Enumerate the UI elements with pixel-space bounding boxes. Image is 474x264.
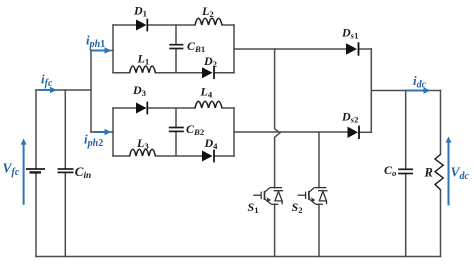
wire Co branch bottom <box>405 174 407 257</box>
wire cell1 bottom mid <box>155 72 202 74</box>
svg-text:ifc: ifc <box>41 72 53 90</box>
svg-text:D1: D1 <box>133 4 147 19</box>
wire phase1 output <box>234 48 346 50</box>
wire bottom rail <box>36 256 441 258</box>
svg-text:D2: D2 <box>203 54 217 69</box>
resistor R <box>435 154 443 189</box>
svg-text:Cin: Cin <box>75 164 91 181</box>
wire cell2 bottom right <box>215 155 234 157</box>
svg-text:Ds1: Ds1 <box>341 25 358 40</box>
inductor L2 <box>195 18 222 25</box>
inductor L3 <box>130 149 156 156</box>
diode D2 <box>202 66 214 79</box>
inductor L4 <box>195 101 222 108</box>
capacitor CB2 <box>169 128 184 132</box>
wire cell1 top mid <box>147 24 195 26</box>
transistor S1 <box>253 188 283 205</box>
current arrow idc <box>406 87 430 93</box>
svg-text:Vfc: Vfc <box>3 161 20 179</box>
svg-text:CB2: CB2 <box>186 122 204 137</box>
wire S2 lower <box>318 204 320 256</box>
wire Cin branch bottom <box>64 172 66 256</box>
wire cell1 top left <box>113 24 136 26</box>
wire cell2 left vertical <box>112 108 114 156</box>
svg-text:D4: D4 <box>204 136 219 151</box>
voltage arrow Vdc <box>446 136 452 205</box>
current arrow iph1 <box>94 47 112 53</box>
svg-text:L3: L3 <box>136 136 149 151</box>
svg-text:D3: D3 <box>132 83 147 98</box>
svg-text:Vdc: Vdc <box>451 165 470 183</box>
inductor L1 <box>130 66 156 73</box>
wire cell2 right vertical <box>233 108 235 156</box>
capacitor CB1 <box>169 45 183 49</box>
svg-text:iph2: iph2 <box>84 132 103 150</box>
wire cell1 center bottom <box>175 49 177 73</box>
diode Ds2 <box>348 126 360 139</box>
wire cell2 bottom mid <box>155 155 202 157</box>
wire feed vertical <box>90 51 92 133</box>
wire cell1 bottom right <box>215 72 234 74</box>
wire R branch top <box>440 91 442 155</box>
svg-text:Ds2: Ds2 <box>341 110 358 125</box>
wire cell1 bottom left <box>113 72 130 74</box>
svg-text:R: R <box>424 166 433 180</box>
wire iph2 stub <box>91 131 113 133</box>
wire S1 lower <box>274 204 276 256</box>
battery Vfc long plate <box>26 168 45 170</box>
wire iph1 stub <box>91 50 113 52</box>
wire idc output <box>371 90 440 92</box>
svg-text:L1: L1 <box>137 52 150 67</box>
wire S1 upper with crossover hop <box>275 49 280 188</box>
wire cell1 right vertical <box>233 25 235 73</box>
svg-text:S2: S2 <box>292 200 303 215</box>
diode D1 <box>136 19 147 32</box>
capacitor Co <box>398 169 413 173</box>
wire cell1 center top <box>175 25 177 45</box>
wire cell2 top mid <box>147 107 195 109</box>
svg-text:Co: Co <box>384 163 397 178</box>
wire cell1 left vertical <box>112 25 114 73</box>
wire Ds1 to corner <box>359 48 372 50</box>
svg-text:idc: idc <box>413 73 427 91</box>
svg-text:L4: L4 <box>200 84 213 99</box>
wire input top <box>36 89 91 91</box>
wire cell1 top right <box>222 24 234 26</box>
transistor S2 <box>298 188 328 205</box>
wire cell2 top right <box>222 107 234 109</box>
wire Vfc branch top <box>35 90 37 169</box>
wire R branch bottom <box>440 190 442 257</box>
capacitor Cin <box>58 169 74 172</box>
wire cell2 bottom left <box>113 155 130 157</box>
wire phase2 output <box>234 131 348 133</box>
battery Vfc short plate <box>30 171 42 173</box>
wire S2 upper <box>318 132 320 188</box>
diode Ds1 <box>346 42 359 55</box>
wire cell2 top left <box>113 107 136 109</box>
current arrow iph2 <box>94 129 112 135</box>
diode D3 <box>136 102 147 115</box>
svg-text:L2: L2 <box>201 4 214 19</box>
diode D4 <box>202 150 214 163</box>
svg-text:iph1: iph1 <box>86 32 105 50</box>
wire Ds2 to corner <box>359 131 371 133</box>
svg-text:CB1: CB1 <box>187 39 205 54</box>
svg-text:S1: S1 <box>248 200 259 215</box>
wire cell2 center bottom <box>175 131 177 156</box>
wire cell2 center top <box>175 108 177 128</box>
wire Co branch top <box>405 91 407 170</box>
voltage arrow Vfc <box>21 138 27 204</box>
current arrow ifc <box>39 87 57 93</box>
wire Cin branch top <box>64 90 66 169</box>
wire Ds1 drop vertical <box>370 49 372 132</box>
wire Vfc branch bottom <box>35 172 37 256</box>
